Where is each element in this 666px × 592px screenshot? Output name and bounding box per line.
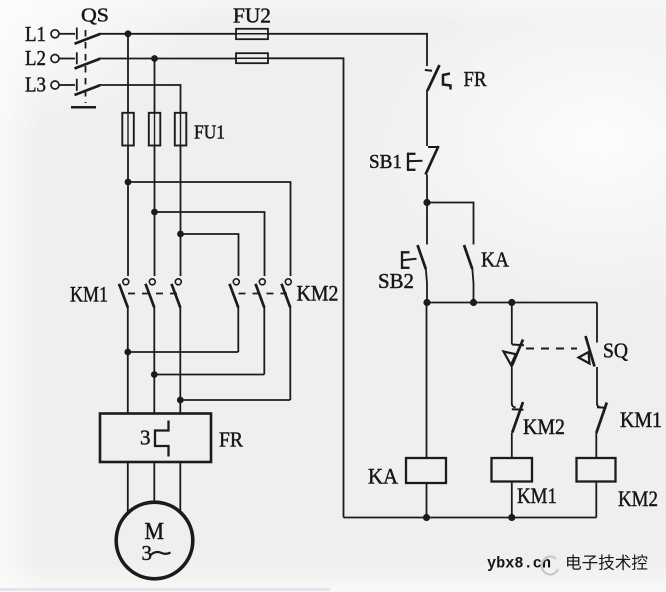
wire KM2 c1 down bbox=[237, 307, 239, 352]
junction U crossback bbox=[124, 349, 131, 356]
SQ linkage dashes bbox=[526, 347, 577, 349]
wire branch to KA contact bbox=[427, 203, 474, 245]
svg-text:QS: QS bbox=[81, 5, 109, 27]
wire bottom bus bbox=[344, 517, 597, 519]
contactor KM2 main contact 1 bbox=[230, 279, 240, 308]
wire KM1 NC down to KM2 coil bbox=[595, 433, 597, 458]
wire KM1 c1 down to FR bbox=[127, 307, 129, 414]
wire SQ NO down bbox=[511, 366, 513, 404]
fuse FU2 element 2 bbox=[236, 53, 268, 63]
wire L1 to QS bbox=[59, 33, 75, 35]
wire FU2b to control rail B bbox=[268, 58, 344, 517]
svg-text:L2: L2 bbox=[25, 46, 46, 70]
wire SB2 down bbox=[426, 269, 427, 304]
wire bus to SQ NO bbox=[511, 303, 513, 345]
svg-text:3: 3 bbox=[142, 541, 153, 565]
wire KM2 c3 down bbox=[289, 307, 291, 400]
junction bus dot 2 bbox=[470, 299, 477, 306]
wire KM1 c2 down to FR bbox=[153, 307, 155, 414]
wire FR to SB1 bbox=[426, 90, 428, 146]
limit switch SQ NC contact bbox=[579, 336, 595, 367]
fuse FU1 element 3 bbox=[175, 113, 187, 146]
junction rail1/L1 bbox=[125, 30, 132, 37]
svg-text:FU1: FU1 bbox=[194, 122, 225, 144]
power rail 3 (L3 phase) bbox=[180, 113, 182, 276]
coil KM2 bbox=[577, 458, 616, 482]
thermal relay FR heater box bbox=[100, 414, 211, 463]
contact KA NO (self-hold) bbox=[464, 245, 472, 269]
contactor KM1 main contact 1 bbox=[119, 279, 129, 308]
junction bus dot 3 bbox=[508, 299, 515, 306]
switch QS pole 1 bbox=[75, 28, 101, 44]
junction W crossback bbox=[177, 397, 184, 404]
svg-text:SB2: SB2 bbox=[378, 269, 414, 293]
wire FR to motor U bbox=[127, 462, 129, 514]
node L2 bbox=[25, 46, 59, 70]
coil KM1 bbox=[492, 458, 533, 482]
junction after SB1 bbox=[423, 199, 430, 206]
button SB2 (NO start) bbox=[401, 245, 426, 269]
contactor KM1 main contact 3 bbox=[172, 279, 182, 308]
svg-text:L1: L1 bbox=[25, 22, 46, 46]
wire SB1 junction to SB2 bbox=[426, 203, 428, 245]
wire crossback KM2c1 to U bbox=[128, 351, 239, 353]
junction V crossback bbox=[151, 371, 158, 378]
wire crossback KM2c2 to V bbox=[154, 374, 264, 376]
switch QS linkage bbox=[71, 30, 96, 107]
svg-text:电子技术控: 电子技术控 bbox=[565, 554, 648, 573]
svg-text:FR: FR bbox=[464, 67, 487, 91]
wire bus to SQ NC bbox=[596, 303, 598, 343]
svg-text:KM1: KM1 bbox=[517, 483, 557, 508]
wire crossover L3 to KM2 contact 1 bbox=[181, 234, 239, 276]
wire KA contact down bbox=[472, 269, 473, 304]
svg-text:KM2: KM2 bbox=[297, 281, 339, 306]
svg-text:L3: L3 bbox=[25, 73, 46, 97]
wire QS pole2 to FU2b bbox=[99, 58, 237, 60]
junction rail2 crossover B bbox=[151, 209, 158, 216]
contactor KM1 main contact 2 bbox=[146, 279, 156, 308]
wire KM1 coil down bbox=[511, 482, 513, 518]
wire crossback KM2c3 to W bbox=[180, 399, 290, 401]
button SB1 (NC stop) bbox=[407, 146, 439, 175]
KM1 linkage dashes bbox=[128, 293, 177, 295]
svg-text:SQ: SQ bbox=[603, 339, 628, 363]
svg-text:KA: KA bbox=[481, 248, 510, 272]
wire QS pole1 to FU2a bbox=[99, 33, 237, 35]
svg-text:FR: FR bbox=[219, 428, 243, 452]
fuse FU1 element 1 bbox=[122, 113, 134, 146]
svg-text:SB1: SB1 bbox=[369, 151, 402, 173]
contact FR NC (thermal) bbox=[425, 65, 451, 91]
wire junction bus bbox=[427, 302, 597, 304]
wire QS pole3 to rail3 bbox=[99, 85, 181, 113]
switch QS pole 3 bbox=[75, 79, 101, 95]
junction rail1 crossover A bbox=[125, 179, 132, 186]
wire FR to motor W bbox=[179, 462, 181, 514]
wire KA coil down bbox=[426, 483, 428, 518]
wire KM2 NC down to KM1 coil bbox=[511, 433, 513, 459]
limit switch SQ NO contact bbox=[504, 340, 525, 366]
wire FU2a to control rail A bbox=[268, 34, 427, 66]
power rail 2 (L2 phase) bbox=[154, 59, 156, 277]
contact KM1 NC interlock bbox=[596, 403, 607, 434]
wire inside FU1-3 bbox=[180, 113, 182, 146]
wire SB1 down bbox=[426, 175, 428, 204]
svg-text:3: 3 bbox=[140, 426, 151, 450]
fuse FU2 element 1 bbox=[236, 29, 268, 39]
wire bus to KA coil bbox=[426, 303, 428, 459]
svg-text:KA: KA bbox=[368, 464, 398, 489]
node L1 bbox=[25, 22, 59, 46]
wire inside FU1-1 bbox=[127, 113, 129, 146]
wire L3 to QS bbox=[59, 84, 75, 86]
fuse FU1 element 2 bbox=[149, 113, 161, 146]
coil KA bbox=[406, 458, 446, 483]
contactor KM2 main contact 2 bbox=[256, 279, 266, 308]
node L3 bbox=[25, 73, 59, 97]
power rail 1 (L1 phase) bbox=[127, 34, 129, 276]
wire KM2 coil down bbox=[595, 482, 597, 518]
wire crossover L2 to KM2 contact 2 bbox=[155, 212, 265, 276]
watermark swirl logo bbox=[542, 557, 558, 575]
svg-text:KM2: KM2 bbox=[523, 414, 565, 439]
switch QS pole 2 bbox=[75, 52, 101, 68]
svg-text:KM1: KM1 bbox=[70, 282, 108, 307]
wire KM2 c2 down bbox=[263, 307, 265, 375]
svg-text:FU2: FU2 bbox=[233, 4, 271, 28]
KM2 linkage dashes bbox=[239, 293, 288, 295]
junction bottom 1 bbox=[423, 514, 430, 521]
wire inside FU1-2 bbox=[154, 113, 156, 146]
contactor KM2 main contact 3 bbox=[282, 279, 292, 308]
junction bottom 2 bbox=[508, 514, 515, 521]
motor M bbox=[116, 502, 193, 579]
svg-text:KM2: KM2 bbox=[618, 486, 658, 511]
bottom edge tint bbox=[0, 588, 330, 591]
wire crossover L1 to KM2 contact 3 bbox=[128, 182, 291, 276]
wire FR to motor V bbox=[153, 462, 155, 503]
junction bus dot 1 bbox=[423, 299, 430, 306]
junction rail3 crossover C bbox=[177, 231, 184, 238]
junction rail2/L2 bbox=[151, 55, 158, 62]
contact KM2 NC interlock bbox=[512, 402, 524, 433]
svg-text:KM1: KM1 bbox=[620, 407, 662, 432]
wire SQ NC down bbox=[596, 367, 598, 404]
wire L2 to QS bbox=[59, 58, 75, 60]
wire KM1 c3 down to FR bbox=[179, 307, 181, 414]
